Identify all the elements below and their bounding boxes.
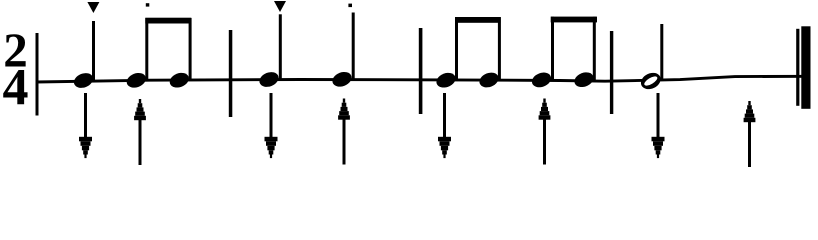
svg-text:4: 4 — [3, 59, 29, 116]
